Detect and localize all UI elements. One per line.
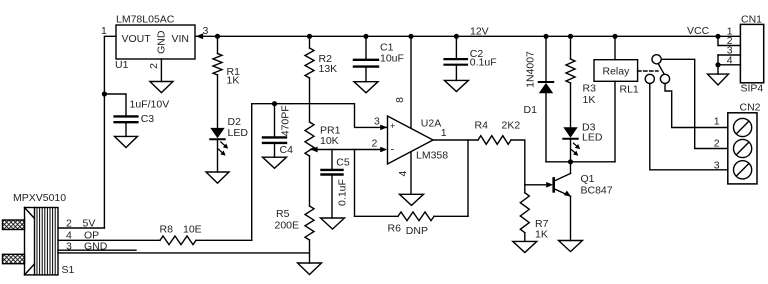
svg-text:LED: LED (228, 127, 249, 139)
wire op-amp pin4 (410, 152, 412, 194)
wire GND sensor to divider ground (58, 252, 310, 254)
svg-text:1N4007: 1N4007 (524, 51, 536, 88)
wire U1 pin2 to ground (160, 59, 162, 82)
wire U1 pin1 stub (104, 36, 116, 228)
resistor R3 (566, 36, 596, 127)
connector CN1 (718, 14, 764, 95)
ground D2 (206, 172, 229, 183)
ground R5/PR1 divider (298, 263, 322, 275)
resistor R4 (475, 119, 521, 144)
svg-text:RL1: RL1 (620, 84, 639, 96)
ground C3 (115, 136, 138, 147)
svg-text:R3: R3 (583, 83, 597, 95)
resistor R7 (520, 185, 548, 242)
svg-text:2: 2 (372, 138, 378, 150)
wire OP sensor to R8 (58, 239, 160, 241)
node D1 (543, 34, 548, 39)
relay NC contact (645, 74, 654, 83)
wire CN1 pin4 stub (718, 64, 740, 66)
wire 5V sensor to regulator (58, 227, 104, 229)
svg-text:R4: R4 (475, 119, 489, 131)
wire common to CN2 pin2 (661, 59, 728, 148)
wire NO to CN2 pin1 (665, 84, 728, 128)
svg-text:200E: 200E (275, 219, 300, 231)
node relay coil (612, 34, 617, 39)
Q1 base arrow (546, 182, 553, 188)
capacitor C1 (354, 36, 404, 81)
svg-text:12V: 12V (470, 25, 489, 37)
relay common contact (652, 55, 661, 64)
svg-text:D1: D1 (524, 104, 538, 116)
svg-text:1K: 1K (535, 229, 548, 241)
svg-text:3: 3 (374, 115, 380, 127)
wire main 12V rail (196, 35, 741, 37)
svg-text:U2A: U2A (421, 117, 441, 129)
svg-text:+: + (390, 121, 395, 131)
svg-text:-: - (391, 144, 395, 156)
svg-text:4: 4 (397, 171, 409, 177)
connector CN2 (714, 102, 761, 184)
wire R4 to Q1 base (511, 140, 547, 185)
relay RL1 (594, 36, 658, 162)
svg-text:Relay: Relay (603, 66, 631, 78)
diode D1 1N4007 (524, 36, 554, 162)
capacitor C3 (104, 94, 169, 136)
svg-text:0.1uF: 0.1uF (336, 179, 348, 206)
relay NO contact (660, 74, 669, 83)
svg-text:1uF/10V: 1uF/10V (130, 98, 170, 110)
svg-text:13K: 13K (319, 63, 338, 75)
svg-text:CN2: CN2 (740, 102, 761, 114)
svg-text:VCC: VCC (687, 25, 710, 37)
svg-text:SIP4: SIP4 (741, 83, 764, 95)
LED D2 (210, 116, 248, 172)
svg-text:LED: LED (582, 131, 603, 143)
ground C4 (263, 157, 287, 168)
node R3 (568, 34, 573, 39)
svg-text:LM78L05AC: LM78L05AC (116, 14, 175, 26)
node collector junction (568, 159, 573, 164)
svg-text:0.1uF: 0.1uF (470, 57, 497, 69)
svg-text:2: 2 (148, 63, 160, 69)
wire feedback from output (467, 140, 469, 216)
svg-text:R8: R8 (160, 224, 174, 236)
svg-text:1: 1 (101, 25, 107, 37)
svg-text:C4: C4 (280, 144, 294, 156)
transistor Q1 BC847 (554, 162, 613, 241)
capacitor C5 (322, 150, 350, 219)
svg-text:2: 2 (714, 138, 720, 150)
capacitor C4 (263, 104, 293, 158)
resistor R2 (305, 36, 337, 122)
svg-text:Q1: Q1 (581, 173, 595, 185)
ground C1 (354, 82, 378, 93)
pressure sensor S1 MPXV5010 (3, 192, 108, 276)
svg-text:BC847: BC847 (581, 185, 613, 197)
op-amp U2A LM358 (372, 97, 449, 177)
op-amp +input arrow (380, 125, 387, 131)
ground C5 (321, 218, 345, 229)
node C1 (363, 34, 368, 39)
pin 3 VIN input arrow (196, 33, 203, 39)
svg-text:R5: R5 (276, 208, 290, 220)
svg-text:8: 8 (394, 97, 406, 103)
svg-text:U1: U1 (115, 59, 129, 71)
resistor R1 (213, 36, 240, 128)
wire NC to CN2 pin3 (650, 84, 728, 170)
node C3 tap (102, 91, 107, 96)
svg-text:CN1: CN1 (741, 14, 762, 26)
ground CN1 (708, 74, 729, 85)
resistor R5 (275, 206, 315, 263)
wire +input net from R8 riser (252, 104, 387, 241)
svg-text:470PF: 470PF (280, 105, 292, 136)
svg-text:DNP: DNP (406, 225, 428, 237)
ground op-amp pin4 (400, 194, 424, 205)
svg-text:S1: S1 (62, 264, 75, 276)
svg-text:OP: OP (84, 229, 99, 241)
svg-text:2K2: 2K2 (502, 119, 521, 131)
op-amp -input arrow (380, 147, 387, 153)
svg-text:10E: 10E (183, 224, 202, 236)
wire op-amp output (433, 139, 478, 141)
wire collector bus (546, 161, 615, 163)
node C2 (454, 34, 459, 39)
wire sensor pin3 stub (58, 249, 136, 251)
node C4 tap (272, 101, 277, 106)
svg-text:3: 3 (203, 25, 209, 37)
svg-text:4: 4 (66, 229, 72, 241)
node CN1 pin4 (715, 62, 720, 67)
potentiometer PR1 (305, 122, 341, 206)
LED D3 (563, 122, 603, 162)
svg-text:R6: R6 (388, 222, 402, 234)
svg-text:1: 1 (714, 116, 720, 128)
svg-text:10K: 10K (320, 135, 339, 147)
svg-text:10uF: 10uF (380, 53, 404, 65)
svg-text:VOUT: VOUT (122, 33, 152, 45)
svg-text:MPXV5010: MPXV5010 (13, 192, 66, 204)
ground C2 (444, 80, 468, 91)
ground U1 pin2 (150, 82, 173, 93)
svg-text:GND: GND (155, 30, 167, 54)
voltage regulator U1 LM78L05AC (101, 14, 209, 72)
resistor R8 (160, 224, 252, 245)
resistor R6 (355, 150, 469, 238)
ground R7 (513, 241, 537, 252)
node R1 (215, 34, 220, 39)
svg-text:LM358: LM358 (416, 150, 448, 162)
svg-text:VIN: VIN (172, 33, 190, 45)
node CN1 pin1 (715, 34, 720, 39)
svg-text:C3: C3 (141, 113, 155, 125)
relay blade (658, 64, 664, 75)
capacitor C2 (445, 36, 497, 80)
node op-amp pin8 (408, 34, 413, 39)
wire op-amp pin8 (410, 36, 412, 128)
wire -input net / PR1 wiper to op-amp (311, 149, 381, 151)
ground Q1 emitter (559, 241, 583, 252)
node R2 (307, 34, 312, 39)
svg-text:3: 3 (714, 159, 720, 171)
svg-text:1: 1 (441, 127, 447, 139)
svg-text:C5: C5 (336, 156, 350, 168)
svg-text:1K: 1K (583, 94, 596, 106)
svg-text:1K: 1K (227, 75, 240, 87)
